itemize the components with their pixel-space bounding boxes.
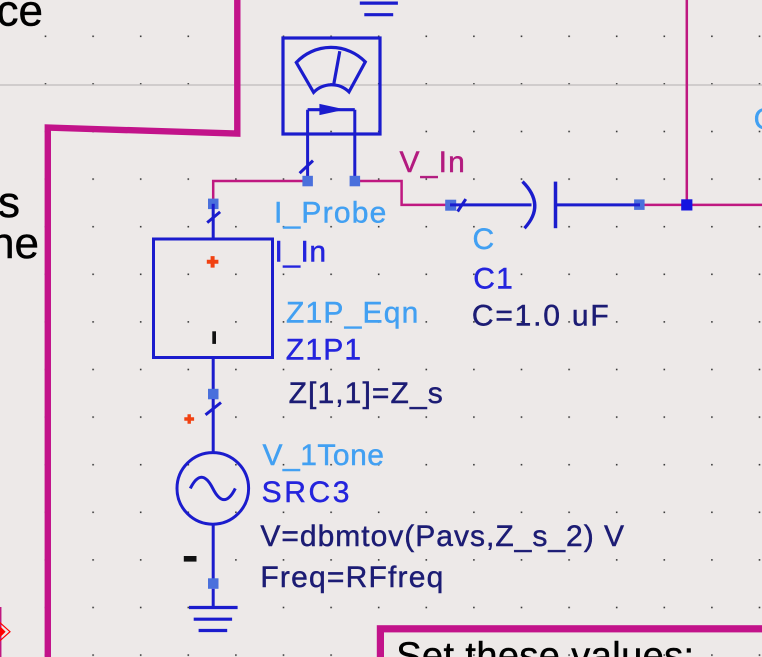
page boundary line bbox=[0, 84, 762, 86]
node square: Z1P top bbox=[208, 199, 219, 210]
ground (bottom) bbox=[189, 608, 238, 631]
net wire V_In (meter to capacitor) bbox=[355, 181, 450, 205]
svg-text:ne: ne bbox=[0, 219, 39, 268]
SRC3 bottom wire bbox=[212, 524, 215, 578]
SRC3 top pin wire bbox=[212, 399, 215, 453]
svg-text:C: C bbox=[754, 103, 762, 136]
node square: capacitor pin2 bbox=[634, 199, 645, 210]
svg-text:I_In: I_In bbox=[275, 236, 327, 269]
svg-text:C1: C1 bbox=[473, 263, 514, 296]
svg-text:SRC3: SRC3 bbox=[262, 476, 352, 509]
net wire (bottom-left, cut) bbox=[0, 607, 1, 657]
node square: meter pin1 bbox=[302, 176, 313, 187]
minus sign (Z1P1, rotated, black) bbox=[212, 331, 216, 344]
wire to ground bbox=[212, 589, 215, 608]
svg-text:C: C bbox=[473, 223, 495, 256]
svg-text:V_1Tone: V_1Tone bbox=[263, 439, 385, 472]
svg-text:Z[1,1]=Z_s: Z[1,1]=Z_s bbox=[289, 377, 444, 410]
sine wave bbox=[190, 477, 235, 499]
ammeter U meter box I_Probe bbox=[283, 38, 380, 134]
thick magenta polyline (upper-left) bbox=[48, 0, 238, 657]
svg-text:Set these values:: Set these values: bbox=[396, 636, 694, 657]
Z1P top pin slash bbox=[207, 212, 220, 223]
capacitor C1: left lead bbox=[450, 203, 532, 206]
SRC3 pin slash bbox=[206, 403, 222, 415]
svg-text:Z1P_Eqn: Z1P_Eqn bbox=[286, 297, 419, 330]
minus sign (SRC3, black) bbox=[184, 556, 197, 562]
net wire vertical (to top edge) bbox=[686, 0, 689, 205]
svg-text:I_Probe: I_Probe bbox=[274, 196, 387, 229]
plus sign (Z1P1, orange) bbox=[207, 256, 219, 268]
capacitor pin slash bbox=[458, 199, 466, 211]
capacitor curved plate bbox=[523, 182, 535, 229]
node square: Z1P bottom / SRC3 top bbox=[208, 389, 219, 400]
svg-text:ce: ce bbox=[0, 0, 43, 35]
Z1P top pin wire bbox=[212, 204, 215, 240]
plus sign (SRC3, orange) bbox=[184, 414, 194, 424]
note box (bottom-right, cut) bbox=[380, 629, 762, 657]
ground (top, partially cut) bbox=[360, 3, 398, 15]
node square: meter pin2 bbox=[350, 176, 361, 187]
svg-text:V_In: V_In bbox=[400, 146, 467, 179]
arrow baseline bbox=[308, 108, 355, 111]
meter pin 1 wire bbox=[306, 110, 309, 181]
node square: capacitor pin1 bbox=[445, 200, 456, 211]
junction square bbox=[681, 199, 692, 210]
net wire V_s (magenta, left of meter) bbox=[213, 181, 307, 204]
impedance block Z1P1 box bbox=[154, 239, 273, 358]
node square: SRC3 bottom bbox=[208, 578, 219, 589]
port arrow (bottom-left, cut) bbox=[0, 623, 10, 641]
arrow head bbox=[319, 104, 345, 115]
Z1P bottom pin wire bbox=[212, 358, 215, 395]
svg-text:Z1P1: Z1P1 bbox=[286, 333, 363, 366]
svg-text:V=dbmtov(Pavs,Z_s_2) V: V=dbmtov(Pavs,Z_s_2) V bbox=[260, 520, 625, 553]
gauge dial bbox=[296, 47, 365, 92]
net wire (capacitor to right edge) bbox=[640, 204, 762, 207]
meter pin 2 wire bbox=[353, 110, 356, 181]
pin 1 slash bbox=[300, 161, 313, 174]
svg-text:C=1.0 uF: C=1.0 uF bbox=[472, 300, 611, 333]
capacitor straight plate bbox=[554, 182, 558, 229]
svg-text:Freq=RFfreq: Freq=RFfreq bbox=[260, 561, 444, 594]
needle bbox=[334, 51, 340, 84]
capacitor right lead bbox=[556, 203, 641, 206]
source V_1Tone SRC3 circle bbox=[177, 453, 249, 525]
